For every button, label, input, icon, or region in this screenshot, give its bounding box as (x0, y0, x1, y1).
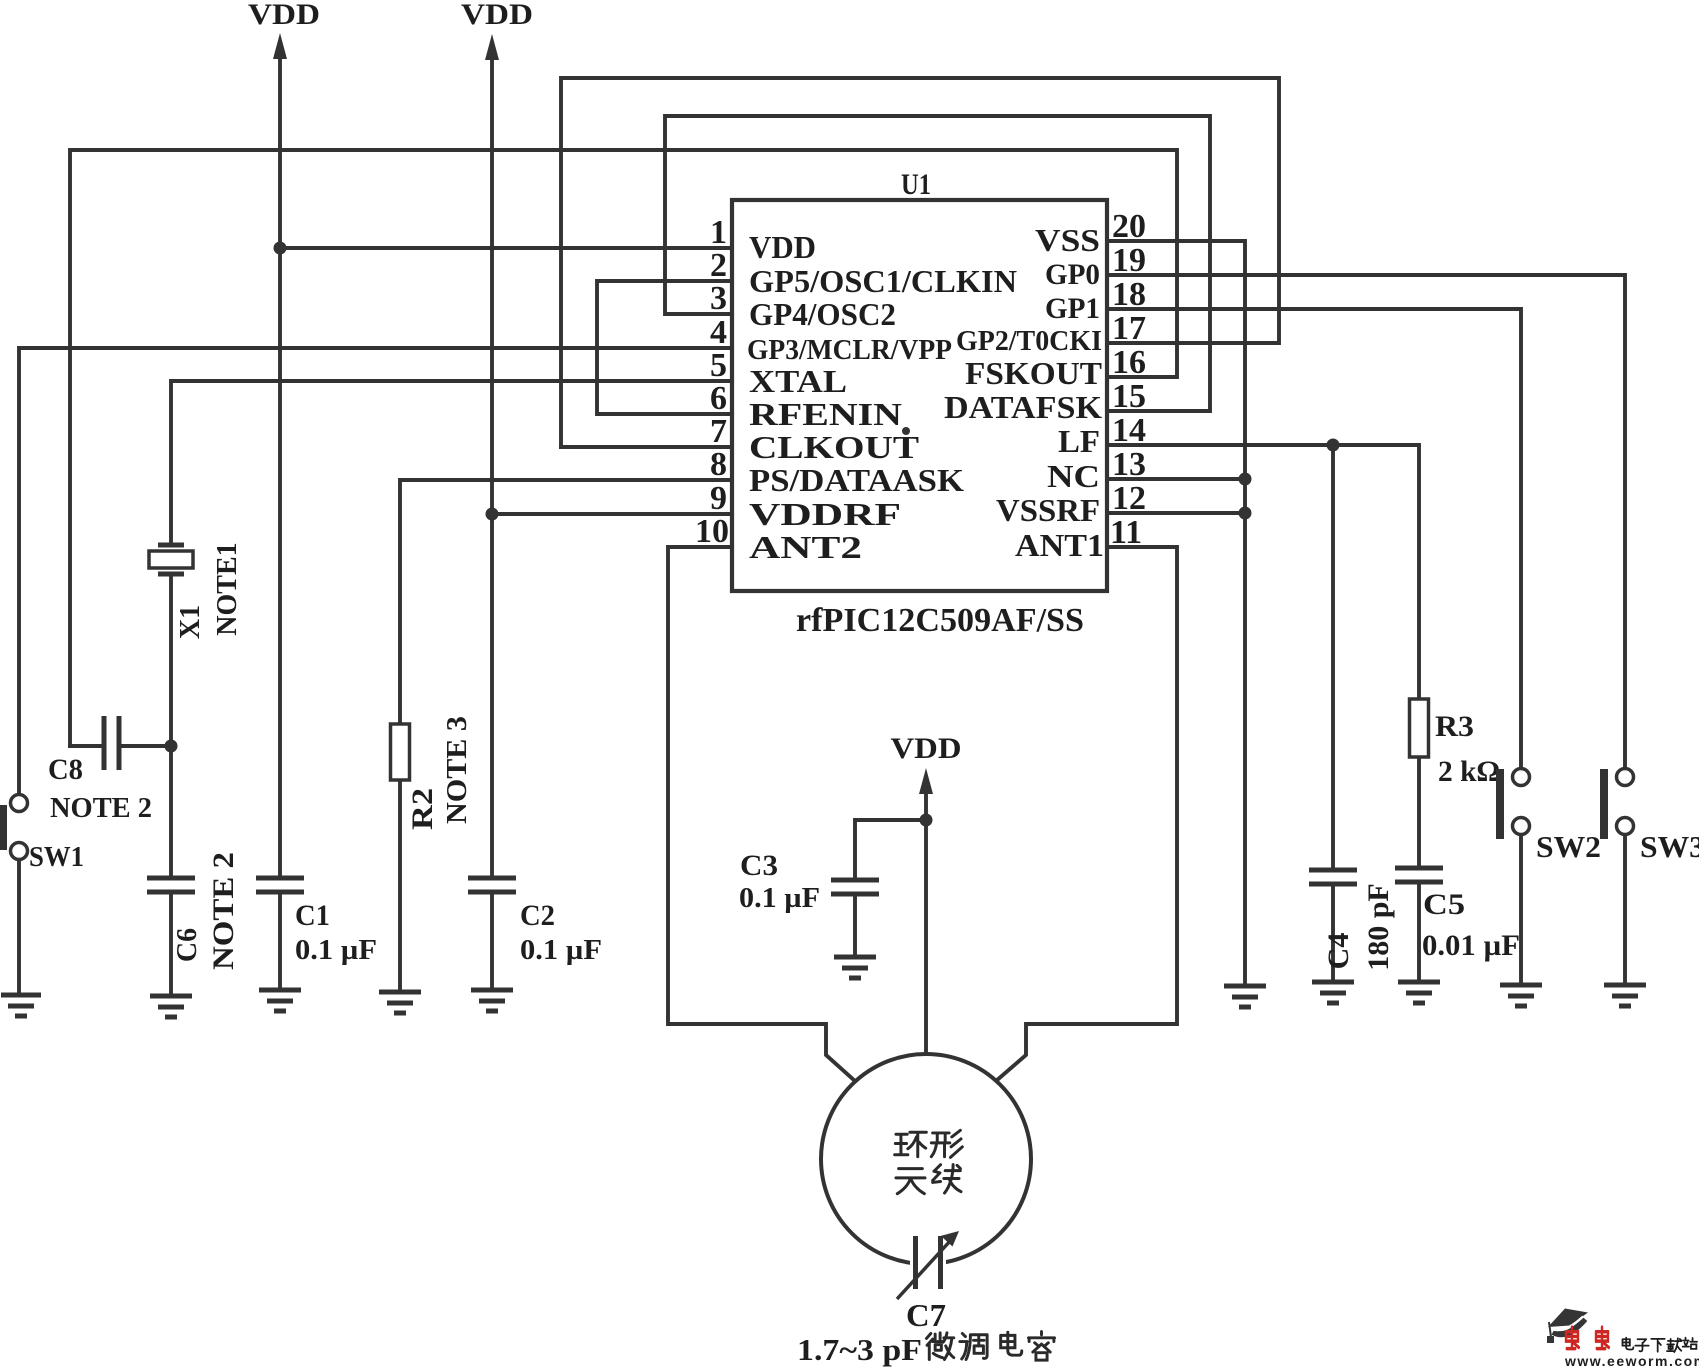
svg-text:5: 5 (710, 347, 727, 384)
wire C8 right lead (121, 744, 171, 748)
junction node VSS/VSSRF (1239, 507, 1252, 520)
watermark hanzi site name (1622, 1338, 1697, 1352)
wire pin14 LF to C4 and R3 (1107, 445, 1419, 699)
wire C4 branch (1331, 445, 1335, 870)
svg-text:R2: R2 (406, 788, 439, 830)
svg-text:VSSRF: VSSRF (996, 492, 1100, 528)
svg-text:12: 12 (1112, 480, 1146, 517)
wire net FSKOUT top horizontal H3 (70, 150, 1177, 746)
svg-text:0.01 µF: 0.01 µF (1422, 929, 1520, 962)
svg-text:ANT2: ANT2 (749, 529, 862, 565)
svg-text:1: 1 (710, 214, 727, 251)
svg-text:NC: NC (1047, 458, 1100, 494)
wire SW3 to ground (1623, 835, 1627, 985)
antenna label hanzi ring antenna (895, 1130, 963, 1193)
svg-text:16: 16 (1112, 344, 1146, 381)
wire pin18 GP1 to SW2 (1107, 309, 1521, 768)
svg-text:15: 15 (1112, 378, 1146, 415)
ground C3 (834, 957, 876, 978)
wire pin1 VDD stub (280, 246, 732, 250)
junction node pin9/VDD2 (486, 508, 499, 521)
wire VDD3 rail to antenna (924, 780, 928, 1053)
wire VDD1 rail (278, 44, 282, 878)
wire pin13 NC stub (1107, 477, 1245, 481)
junction node pin1/VDD1 (274, 242, 287, 255)
resistor R2 (391, 724, 410, 780)
svg-text:NOTE 3: NOTE 3 (441, 716, 473, 824)
wire pin11 ANT1 to antenna (996, 547, 1177, 1081)
wire pin10 ANT2 to antenna (668, 547, 855, 1081)
wire VDD2 rail (490, 45, 494, 878)
svg-text:GP5/OSC1/CLKIN: GP5/OSC1/CLKIN (749, 263, 1017, 299)
ground SW1 (1, 995, 41, 1016)
junction node X1/C8/C6 (165, 740, 178, 753)
svg-text:SW2: SW2 (1536, 829, 1601, 864)
capacitor C6 (147, 878, 195, 892)
svg-text:9: 9 (710, 480, 727, 517)
junction node VDD3/C3 (920, 814, 933, 827)
capacitor C3 (831, 880, 879, 894)
svg-text:0.1 µF: 0.1 µF (520, 935, 602, 966)
svg-text:FSKOUT: FSKOUT (965, 355, 1102, 391)
label C7 value hanzi trimmer capacitor (926, 1332, 1054, 1361)
svg-text:C5: C5 (1423, 888, 1465, 921)
svg-text:VDD: VDD (891, 732, 962, 765)
svg-text:LF: LF (1058, 423, 1100, 459)
svg-text:VDD: VDD (461, 0, 533, 31)
wire C3 branch (855, 820, 926, 880)
capacitor C5 (1395, 868, 1443, 882)
wire net CLKOUT-GP2 top horizontal H1 (561, 78, 1279, 447)
wire pin19 GP0 to SW3 (1107, 275, 1625, 768)
ground SW3 (1604, 985, 1646, 1006)
svg-text:X1: X1 (175, 605, 206, 639)
wire pin8 to R2 (400, 480, 732, 724)
svg-text:GP0: GP0 (1045, 258, 1100, 291)
svg-text:0.1 µF: 0.1 µF (739, 883, 820, 914)
svg-text:6: 6 (710, 380, 727, 417)
wire C1 to ground (278, 892, 282, 990)
wire C3 to ground (853, 894, 857, 957)
svg-text:17: 17 (1112, 310, 1146, 347)
svg-text:20: 20 (1112, 208, 1146, 245)
svg-text:R3: R3 (1435, 710, 1474, 743)
svg-text:rfPIC12C509AF/SS: rfPIC12C509AF/SS (796, 602, 1084, 639)
svg-text:13: 13 (1112, 446, 1146, 483)
svg-text:XTAL: XTAL (749, 363, 847, 399)
switch SW2 (1496, 769, 1530, 840)
wire pin2-pin6 GP5/RFENIN link (597, 281, 732, 414)
comma artifact (902, 427, 910, 435)
svg-text:VSS: VSS (1035, 222, 1100, 258)
ground R2 (379, 992, 421, 1013)
junction node LF/C4 (1327, 439, 1340, 452)
ground VSS net (1224, 986, 1266, 1007)
svg-text:www.eeworm.com: www.eeworm.com (1564, 1353, 1699, 1367)
wire C5 to ground (1417, 882, 1421, 982)
switch SW3 (1600, 769, 1634, 840)
svg-text:NOTE 2: NOTE 2 (50, 792, 152, 824)
svg-text:C2: C2 (520, 899, 555, 932)
svg-text:C4: C4 (1322, 933, 1355, 970)
wire X1 to C8 node to C6 (169, 576, 173, 878)
svg-text:180 pF: 180 pF (1362, 883, 1395, 971)
svg-text:1.7~3 pF: 1.7~3 pF (797, 1332, 922, 1367)
svg-text:C8: C8 (48, 753, 83, 786)
wire pin4 GP3 to SW1 (19, 348, 732, 795)
capacitor C4 (1309, 870, 1357, 884)
wire C2 to ground (490, 892, 494, 990)
ground C1 (259, 990, 301, 1011)
crystal X1 (149, 545, 193, 574)
svg-text:3: 3 (710, 280, 727, 317)
svg-text:U1: U1 (901, 168, 931, 201)
svg-text:SW3: SW3 (1640, 829, 1699, 864)
wire net GP4-DATAFSK top horizontal H2 (665, 116, 1210, 411)
wire C4 to ground (1331, 884, 1335, 982)
IC U1 box (732, 200, 1107, 591)
svg-text:C3: C3 (740, 849, 778, 882)
resistor R3 (1410, 699, 1429, 757)
svg-text:CLKOUT: CLKOUT (749, 429, 919, 465)
svg-text:2 kΩ: 2 kΩ (1438, 755, 1500, 788)
VDD symbol 3 (891, 732, 962, 794)
watermark graduation cap logo (1547, 1309, 1588, 1344)
svg-text:14: 14 (1112, 412, 1146, 449)
svg-text:DATAFSK: DATAFSK (944, 389, 1102, 425)
ground C6 (150, 996, 192, 1017)
svg-text:PS/DATAASK: PS/DATAASK (749, 462, 964, 498)
svg-text:RFENIN: RFENIN (749, 396, 902, 432)
wire pin20 VSS to ground (1107, 241, 1245, 986)
wire SW2 to ground (1519, 835, 1523, 985)
ground C5 (1398, 982, 1440, 1003)
svg-text:VDD: VDD (749, 229, 816, 265)
svg-text:GP2/T0CKI: GP2/T0CKI (956, 325, 1102, 357)
ground C2 (471, 990, 513, 1011)
loop antenna circle (821, 1054, 1031, 1264)
capacitor C2 (468, 878, 516, 892)
wire pin7 CLKOUT stub (561, 445, 732, 449)
svg-text:0.1 µF: 0.1 µF (295, 935, 377, 966)
svg-text:ANT1: ANT1 (1015, 527, 1104, 563)
svg-text:19: 19 (1112, 242, 1146, 279)
VDD symbol 2 (461, 0, 533, 60)
switch SW1 (0, 795, 28, 860)
capacitor C8 (104, 716, 119, 770)
svg-text:VDDRF: VDDRF (749, 496, 901, 532)
wire pin5 XTAL to X1 (171, 381, 732, 543)
ground SW2 (1500, 985, 1542, 1006)
svg-text:2: 2 (710, 247, 727, 284)
wire SW1 to ground (17, 859, 21, 995)
svg-text:7: 7 (710, 413, 727, 450)
svg-text:18: 18 (1112, 276, 1146, 313)
svg-text:VDD: VDD (248, 0, 320, 31)
wire C8 left lead (70, 744, 102, 748)
svg-text:SW1: SW1 (29, 842, 84, 873)
svg-text:11: 11 (1110, 514, 1142, 551)
trimmer capacitor C7 (897, 1231, 959, 1299)
junction node VSS/NC (1239, 473, 1252, 486)
svg-text:GP4/OSC2: GP4/OSC2 (749, 296, 896, 332)
ground C4 (1312, 982, 1354, 1003)
wire pin9 VDDRF stub (492, 512, 732, 516)
capacitor C1 (256, 878, 304, 892)
svg-text:GP3/MCLR/VPP: GP3/MCLR/VPP (747, 334, 952, 366)
svg-text:C1: C1 (295, 899, 330, 932)
svg-text:C6: C6 (172, 928, 203, 962)
svg-text:8: 8 (710, 446, 727, 483)
VDD symbol 1 (248, 0, 320, 59)
svg-text:GP1: GP1 (1045, 292, 1100, 325)
wire R2 to ground (398, 780, 402, 992)
svg-text:C7: C7 (906, 1297, 946, 1333)
svg-text:4: 4 (710, 314, 727, 351)
wire pin12 VSSRF stub (1107, 511, 1245, 515)
wire R3 to C5 (1417, 757, 1421, 868)
watermark hanzi chongchong red (1566, 1327, 1609, 1348)
svg-text:NOTE1: NOTE1 (212, 542, 243, 635)
svg-text:10: 10 (695, 513, 729, 550)
wire C6 to ground (169, 892, 173, 996)
svg-text:NOTE 2: NOTE 2 (207, 852, 240, 970)
